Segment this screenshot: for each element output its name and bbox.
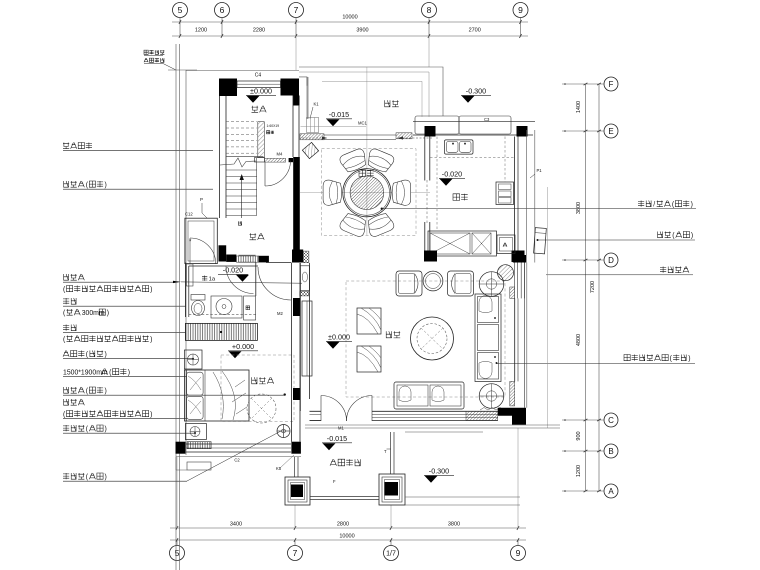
svg-text:): ) (691, 201, 693, 208)
svg-text:): ) (150, 286, 152, 293)
svg-text:): ) (105, 351, 107, 358)
svg-text:F: F (609, 80, 614, 89)
svg-text:T: T (384, 449, 387, 454)
svg-text:): ) (688, 355, 690, 362)
svg-text:M2: M2 (277, 311, 283, 316)
svg-text:-0.300: -0.300 (429, 467, 449, 476)
svg-text:7: 7 (294, 5, 299, 15)
svg-text:±0.000: ±0.000 (250, 87, 272, 96)
svg-text:D: D (608, 256, 614, 265)
svg-text:/: / (653, 201, 655, 208)
svg-text:±0.000: ±0.000 (328, 333, 350, 342)
svg-text:8: 8 (427, 5, 432, 15)
svg-text:): ) (128, 369, 130, 376)
svg-text:): ) (691, 232, 693, 239)
svg-text:B: B (608, 447, 613, 456)
svg-text:2700: 2700 (469, 28, 481, 34)
svg-text:E: E (608, 127, 613, 136)
svg-text:1a: 1a (209, 277, 216, 283)
svg-text:2280: 2280 (253, 28, 265, 34)
svg-text:P: P (200, 197, 203, 202)
svg-text:9: 9 (516, 548, 521, 558)
svg-text:1/7: 1/7 (386, 551, 396, 558)
svg-text:7: 7 (293, 548, 298, 558)
svg-text:C2: C2 (234, 458, 240, 463)
svg-text:): ) (105, 388, 107, 395)
svg-text:K1: K1 (314, 102, 320, 107)
svg-text:900: 900 (576, 431, 582, 440)
svg-text:): ) (105, 426, 107, 433)
svg-text:10000: 10000 (339, 534, 354, 540)
svg-text:A: A (608, 487, 614, 496)
svg-text:MC1: MC1 (358, 121, 368, 126)
svg-text:): ) (105, 474, 107, 481)
svg-text:5: 5 (178, 5, 183, 15)
svg-text:10000: 10000 (342, 15, 357, 21)
svg-text:5: 5 (175, 548, 180, 558)
svg-text:C3: C3 (484, 117, 490, 122)
svg-text:): ) (150, 411, 152, 418)
svg-text:C4: C4 (255, 73, 262, 79)
svg-text:+0.000: +0.000 (232, 342, 254, 351)
svg-text:7200: 7200 (590, 281, 596, 293)
svg-text:-0.015: -0.015 (327, 434, 347, 443)
svg-text:3800: 3800 (448, 522, 460, 528)
svg-text:1200: 1200 (576, 465, 582, 477)
svg-text:K5: K5 (276, 466, 282, 471)
svg-text:F: F (333, 479, 336, 484)
svg-text:9: 9 (518, 5, 523, 15)
svg-text:): ) (107, 310, 109, 317)
svg-text:M4: M4 (277, 152, 283, 157)
svg-text:3800: 3800 (576, 202, 582, 214)
svg-text:M1: M1 (338, 426, 344, 431)
svg-text:2800: 2800 (337, 522, 349, 528)
svg-text:P1: P1 (537, 168, 543, 173)
svg-text:C: C (608, 416, 614, 425)
svg-text:-0.015: -0.015 (329, 110, 349, 119)
svg-text:1500*1900mm: 1500*1900mm (63, 369, 108, 376)
svg-text:-0.020: -0.020 (442, 170, 462, 179)
svg-text:1400: 1400 (576, 101, 582, 113)
svg-text:1:60X19: 1:60X19 (267, 124, 280, 128)
svg-text:4800: 4800 (576, 334, 582, 346)
svg-text:6: 6 (220, 5, 225, 15)
svg-text:C12: C12 (185, 212, 193, 217)
svg-text:300mm: 300mm (82, 310, 105, 317)
svg-text:): ) (150, 336, 152, 343)
svg-text:3900: 3900 (356, 28, 368, 34)
svg-text:): ) (105, 182, 107, 189)
svg-text:-0.300: -0.300 (466, 87, 486, 96)
svg-text:3400: 3400 (230, 522, 242, 528)
svg-text:1200: 1200 (195, 28, 207, 34)
